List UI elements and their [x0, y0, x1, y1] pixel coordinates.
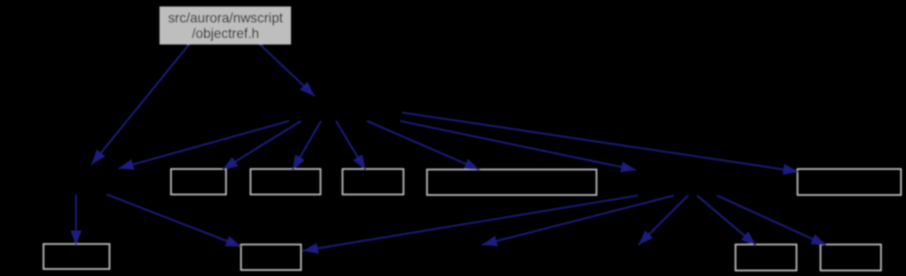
- node main box: src/aurora/nwscript/objectref.h: [160, 7, 292, 45]
- svg-text:/objectref.h: /objectref.h: [192, 26, 259, 41]
- edge node2->boxA: [223, 121, 302, 170]
- edge node4->boxH: [697, 196, 756, 246]
- edge node2->boxB: [293, 121, 322, 170]
- edge node2->boxE: [402, 113, 798, 172]
- edge node3->boxG: [107, 195, 241, 247]
- node boxF: [44, 244, 110, 269]
- edge node2->node3: [119, 121, 290, 169]
- edge node4->node6: [639, 196, 689, 245]
- edge node2->boxC: [336, 121, 366, 170]
- edge node4->boxI: [717, 196, 826, 246]
- edge node4->boxG: [303, 196, 638, 251]
- edge node2->node4: [400, 121, 636, 170]
- node boxE: [798, 169, 902, 195]
- edge node3->boxF: [75, 195, 77, 246]
- node boxA: [171, 169, 226, 195]
- edge node4->node5: [482, 196, 674, 245]
- edge main->node2 (hub): [260, 45, 315, 97]
- node boxG: [241, 245, 301, 271]
- svg-text:src/aurora/nwscript: src/aurora/nwscript: [168, 10, 283, 25]
- node boxC: [343, 169, 404, 195]
- edge main->node3 (left invisible node): [92, 45, 190, 165]
- node boxD: [427, 170, 597, 196]
- edge node2->boxD: [367, 121, 480, 170]
- node boxH: [736, 245, 797, 271]
- node boxB: [251, 169, 321, 195]
- node boxI: [821, 245, 882, 271]
